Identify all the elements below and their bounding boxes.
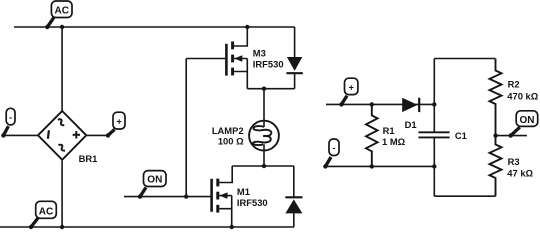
junction lamp top node <box>262 87 266 91</box>
terminal AC (bottom) <box>29 201 57 229</box>
wire BR1 bottom to bottom rail <box>61 161 63 227</box>
wire M3 source rail <box>247 88 294 90</box>
wire loop top side <box>434 58 495 60</box>
junction bottom AC node <box>60 225 64 229</box>
wire top AC rail <box>14 26 295 28</box>
diode D1 <box>402 98 419 130</box>
svg-text:-: - <box>333 143 336 153</box>
svg-text:470 kΩ: 470 kΩ <box>507 90 538 101</box>
svg-text:D1: D1 <box>405 119 417 130</box>
wire right circuit bottom rail <box>325 165 434 167</box>
svg-text:ON: ON <box>147 175 162 186</box>
lamp LAMP2 <box>212 121 279 151</box>
svg-text:BR1: BR1 <box>79 153 98 164</box>
resistor R2 <box>490 59 539 136</box>
svg-text:M3: M3 <box>253 48 266 59</box>
junction M1 drain node <box>262 164 266 168</box>
wire loop bottom side <box>434 195 495 197</box>
wire diode to source rail <box>294 73 296 89</box>
wire M3 gate <box>186 58 226 60</box>
junction gate feed node <box>184 194 188 198</box>
transistor M1 <box>212 179 268 227</box>
svg-text:R1: R1 <box>383 125 395 136</box>
junction C1 bottom node <box>432 164 436 168</box>
terminal ON (right circuit) <box>509 111 538 138</box>
svg-text:LAMP2: LAMP2 <box>212 125 244 136</box>
terminal + (left circuit) <box>106 112 125 137</box>
svg-text:AC: AC <box>54 6 68 17</box>
wire M1 drain <box>219 166 232 183</box>
svg-text:+: + <box>349 82 354 92</box>
diode body M1 (pointing up) <box>285 166 302 227</box>
wire C1 branch lower <box>433 137 435 196</box>
wire C1 branch upper <box>433 59 435 133</box>
svg-text:IRF530: IRF530 <box>253 58 284 69</box>
svg-text:47 kΩ: 47 kΩ <box>507 168 533 179</box>
junction top AC node <box>60 25 64 29</box>
wire to lamp <box>263 89 265 121</box>
wire to BR1 top <box>61 27 63 111</box>
terminal - (left) <box>1 108 15 137</box>
diode body M3 (pointing down) <box>286 57 302 73</box>
wire ON tap <box>496 135 527 137</box>
svg-text:C1: C1 <box>455 130 467 141</box>
svg-text:100 Ω: 100 Ω <box>218 136 244 147</box>
wire BR1 plus output <box>87 134 109 136</box>
transistor M3 <box>226 42 283 89</box>
terminal - (right circuit) <box>323 139 339 169</box>
terminal AC (top) <box>45 1 72 29</box>
junction R2/R3 node <box>493 133 497 137</box>
wire M1 drain rail <box>232 165 294 167</box>
resistor R3 <box>490 136 534 197</box>
svg-text:R3: R3 <box>508 156 520 167</box>
wire lamp bottom <box>263 151 265 167</box>
capacitor C1 <box>418 130 466 141</box>
wire bottom AC rail <box>0 226 294 228</box>
svg-text:1 MΩ: 1 MΩ <box>382 136 406 147</box>
terminal ON (left circuit) <box>138 171 166 199</box>
resistor R1 <box>366 104 406 166</box>
wire top right corner down to diode <box>294 27 296 57</box>
wire right circuit top rail <box>326 103 434 105</box>
junction R1 bottom node <box>370 164 374 168</box>
bridge rectifier BR1 <box>38 111 97 164</box>
svg-text:IRF530: IRF530 <box>237 197 268 208</box>
wire M3 drain <box>234 27 247 46</box>
wire BR1 minus output <box>3 134 38 136</box>
svg-text:AC: AC <box>39 206 53 217</box>
svg-text:-: - <box>9 113 12 123</box>
svg-text:R2: R2 <box>508 78 520 89</box>
wire gate feed riser <box>185 59 187 197</box>
terminal + (right circuit) <box>339 78 358 106</box>
junction M1 source node <box>230 225 234 229</box>
junction M3 drain node <box>245 25 249 29</box>
svg-text:+: + <box>116 116 121 126</box>
wire ON gate rail <box>124 196 212 198</box>
svg-text:ON: ON <box>520 115 535 126</box>
junction C1 top node <box>432 102 436 106</box>
junction R1 top node <box>370 102 374 106</box>
svg-text:M1: M1 <box>237 186 250 197</box>
